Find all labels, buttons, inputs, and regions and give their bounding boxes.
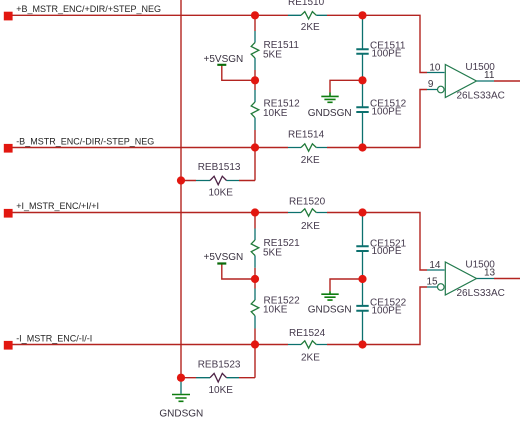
svg-text:2KE: 2KE (301, 155, 320, 166)
svg-text:-B_MSTR_ENC/-DIR/-STEP_NEG: -B_MSTR_ENC/-DIR/-STEP_NEG (16, 136, 154, 146)
svg-text:13: 13 (484, 268, 496, 279)
svg-text:GNDSGN: GNDSGN (308, 108, 352, 119)
svg-text:10: 10 (429, 63, 441, 74)
svg-text:-I_MSTR_ENC/-I/-I: -I_MSTR_ENC/-I/-I (16, 333, 92, 343)
svg-text:REB1523: REB1523 (198, 360, 241, 371)
svg-text:15: 15 (426, 277, 438, 288)
svg-text:10KE: 10KE (263, 108, 288, 119)
svg-text:2KE: 2KE (301, 22, 320, 33)
svg-text:2KE: 2KE (301, 353, 320, 364)
svg-text:+5VSGN: +5VSGN (204, 252, 244, 263)
svg-text:26LS33AC: 26LS33AC (457, 288, 505, 299)
svg-text:2KE: 2KE (301, 221, 320, 232)
svg-text:10KE: 10KE (209, 385, 234, 396)
svg-text:5KE: 5KE (263, 247, 282, 258)
svg-text:+B_MSTR_ENC/+DIR/+STEP_NEG: +B_MSTR_ENC/+DIR/+STEP_NEG (16, 4, 161, 14)
svg-text:10KE: 10KE (263, 305, 288, 316)
svg-text:5KE: 5KE (263, 49, 282, 60)
svg-text:100PE: 100PE (372, 305, 402, 316)
svg-text:14: 14 (429, 260, 441, 271)
svg-text:RE1510: RE1510 (288, 0, 325, 8)
svg-text:11: 11 (484, 70, 495, 81)
svg-text:100PE: 100PE (372, 107, 402, 118)
svg-text:REB1513: REB1513 (198, 162, 241, 173)
svg-text:RE1520: RE1520 (289, 197, 326, 208)
svg-text:10KE: 10KE (209, 187, 234, 198)
svg-text:GNDSGN: GNDSGN (159, 409, 203, 420)
svg-text:100PE: 100PE (372, 48, 402, 59)
svg-text:26LS33AC: 26LS33AC (457, 90, 505, 101)
svg-text:100PE: 100PE (372, 246, 402, 257)
svg-text:+5VSGN: +5VSGN (204, 54, 244, 65)
svg-text:RE1524: RE1524 (289, 328, 326, 339)
svg-text:RE1514: RE1514 (288, 129, 325, 140)
svg-text:GNDSGN: GNDSGN (308, 305, 352, 316)
svg-text:+I_MSTR_ENC/+I/+I: +I_MSTR_ENC/+I/+I (16, 201, 99, 211)
svg-text:9: 9 (428, 79, 434, 90)
